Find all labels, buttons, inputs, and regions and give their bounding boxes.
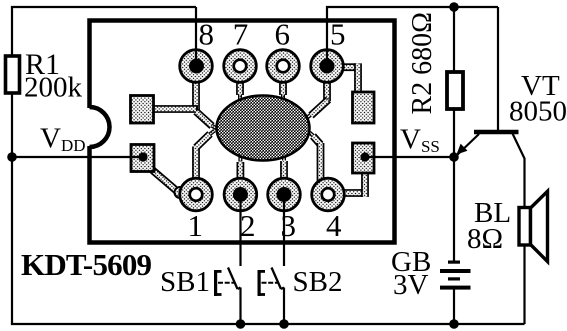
battery GB bars [440, 261, 471, 290]
IC KDT-5609 package outline [90, 21, 395, 243]
trace diagonal T-junction to die [196, 112, 218, 130]
resistor R2 body [447, 72, 463, 109]
svg-text:SB2: SB2 [293, 266, 343, 298]
switch SB1 [214, 268, 245, 329]
svg-text:7: 7 [233, 17, 249, 52]
trace pad7 to die [236, 78, 244, 101]
node top junction [449, 2, 459, 12]
svg-text:200k: 200k [24, 72, 83, 104]
node VDD junction [7, 152, 17, 162]
svg-text:8Ω: 8Ω [467, 223, 503, 255]
package notch [87, 107, 110, 147]
trace pad1 to die [196, 131, 215, 183]
transistor VT emitter arrow [457, 144, 468, 155]
transistor VT emitter [456, 134, 480, 157]
UR square pad [353, 92, 375, 123]
trace pad3 to die [280, 155, 288, 182]
trace LL square to via [150, 168, 178, 192]
wire bottom rail [11, 323, 525, 325]
pad 4 [312, 178, 345, 211]
trace pad6 to die [279, 78, 287, 101]
wire base drop [497, 7, 499, 131]
transistor VT collector and right rail [513, 134, 525, 325]
node battery bottom junction [449, 319, 459, 329]
trace pad8 to T-junction [192, 78, 200, 111]
svg-text:R2 680Ω: R2 680Ω [407, 12, 438, 114]
via between LL square and pad1 [175, 187, 186, 198]
wire R2 chain [453, 7, 455, 262]
svg-text:SB1: SB1 [160, 266, 210, 298]
svg-text:3V: 3V [393, 269, 429, 301]
transistor VT base bar [474, 130, 519, 134]
trace pad5 to die [306, 80, 329, 119]
pad 1 [180, 178, 213, 211]
wire top left run [11, 6, 196, 8]
node VSS junction [449, 152, 459, 162]
pad 8 [180, 50, 213, 83]
svg-text:4: 4 [326, 208, 342, 243]
trace pad5 to UR square [342, 63, 358, 95]
node LL square dot [138, 152, 147, 161]
pad 2 [224, 178, 257, 211]
wire VSS [365, 156, 454, 158]
resistor R1 body [6, 56, 20, 93]
pad 5 [311, 50, 344, 83]
wire battery to bottom rail [453, 288, 455, 324]
UL square pad [131, 96, 154, 124]
die ellipse [217, 96, 310, 161]
wire pad5 riser and top right run [327, 7, 498, 66]
wire pad2 to SB1 [239, 195, 241, 267]
switch SB2 [258, 268, 289, 329]
svg-text:KDT-5609: KDT-5609 [21, 247, 152, 282]
svg-text:5: 5 [330, 17, 346, 52]
svg-text:1: 1 [188, 208, 204, 243]
wire left rail [11, 7, 13, 324]
pad 6 [267, 50, 300, 83]
pad 3 [268, 178, 301, 211]
svg-text:8: 8 [199, 17, 215, 52]
wire pad3 to SB2 [283, 195, 285, 267]
svg-text:8050: 8050 [509, 96, 567, 128]
svg-text:2: 2 [240, 208, 256, 243]
svg-text:3: 3 [281, 208, 297, 243]
svg-text:6: 6 [275, 17, 291, 52]
node LR square dot [360, 152, 369, 161]
wire drop to pad8 [195, 7, 197, 66]
LR square pad (VSS) [353, 143, 375, 173]
speaker BL [519, 191, 548, 261]
trace UL square to T-junction [151, 105, 198, 113]
LL square pad (VDD) [131, 145, 154, 172]
trace die to pad4 [310, 133, 321, 183]
trace pad2 to die [236, 157, 244, 183]
pad 7 [224, 50, 257, 83]
wire VDD [12, 156, 143, 158]
trace pad4 to LR square [340, 170, 365, 197]
